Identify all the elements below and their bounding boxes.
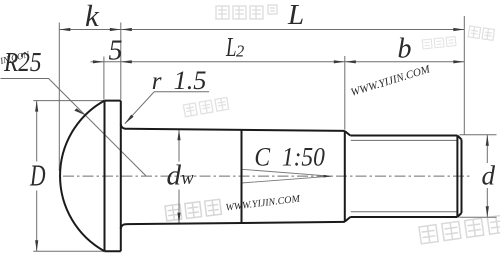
- dimension d arrows: [486, 135, 489, 146]
- dimension L line: [121, 29, 465, 31]
- dimension k arrows: [59, 28, 70, 31]
- dimension L2 extension (mid): [344, 56, 346, 130]
- dimension L2 line: [121, 61, 345, 63]
- dimension b arrows: [345, 60, 356, 63]
- thread root bottom (thin): [351, 211, 458, 213]
- leader R25 arrowhead: [74, 108, 85, 115]
- thread root top (thin): [351, 139, 458, 141]
- svg-text:1.5: 1.5: [174, 66, 207, 95]
- thread start chamfer bottom: [345, 217, 351, 222]
- taper arrowhead: [324, 175, 333, 178]
- thread crest bottom: [350, 216, 457, 218]
- dimension 5 extension: [103, 57, 105, 100]
- head dome arc: [60, 101, 104, 252]
- svg-text:R25: R25: [3, 47, 41, 77]
- dimension dw arrows: [177, 129, 180, 140]
- taper wedge lines: [242, 169, 332, 183]
- watermark shank diagonal: [165, 190, 301, 221]
- watermark top-center: [216, 5, 277, 19]
- svg-text:C 1:50: C 1:50: [254, 142, 325, 171]
- head bearing face: [120, 101, 122, 252]
- leader R25: [1, 79, 147, 176]
- centerline: [63, 175, 471, 177]
- svg-text:5: 5: [109, 35, 123, 66]
- dimension D arrows: [35, 101, 38, 112]
- dimension 5 line: [104, 61, 121, 63]
- watermark under r1.5: [183, 97, 228, 116]
- leader r1.5 arrowhead: [125, 115, 134, 124]
- dimension L right extension: [463, 16, 465, 135]
- thread end chamfer edge: [456, 136, 458, 218]
- fillet top r1.5: [121, 124, 126, 129]
- thread shoulder vertical: [344, 131, 346, 222]
- watermark bottom-right: [419, 215, 500, 244]
- dimension D top extension: [33, 100, 104, 102]
- dimension k extension right (above head): [120, 23, 122, 100]
- fillet bottom r1.5: [121, 224, 126, 229]
- dimension L2 arrows: [121, 60, 132, 63]
- dimension d line: [486, 135, 488, 218]
- thread end chamfer top: [457, 136, 461, 140]
- thread start chamfer top: [345, 131, 351, 135]
- head tangency line: [104, 101, 106, 252]
- dimension k extension left: [58, 23, 60, 172]
- dimension d top extension: [460, 134, 497, 136]
- shank bottom line (tapered): [126, 222, 345, 224]
- dimension D line: [36, 101, 38, 252]
- svg-text:b: b: [398, 33, 412, 64]
- dimension L arrows: [121, 28, 132, 31]
- svg-text:k: k: [85, 0, 100, 33]
- svg-text:w: w: [181, 169, 194, 189]
- dimension D bottom extension: [33, 250, 103, 252]
- svg-text:2: 2: [236, 42, 244, 61]
- thread end chamfer bottom: [457, 213, 461, 217]
- head bottom flat: [105, 250, 121, 252]
- watermark top-right: [468, 26, 494, 40]
- dimension k line: [59, 29, 121, 31]
- dimension b line: [345, 61, 465, 63]
- dimension dw line: [178, 129, 180, 223]
- svg-text:D: D: [29, 158, 45, 193]
- shank mid vertical: [241, 130, 243, 223]
- svg-text:d: d: [167, 159, 182, 191]
- thread crest top: [350, 135, 457, 137]
- svg-text:L: L: [287, 0, 304, 31]
- thread end face: [461, 140, 463, 214]
- dimension 5 outside arrow with tail: [91, 61, 104, 63]
- shank top line (tapered): [126, 129, 345, 131]
- svg-text:d: d: [482, 161, 496, 191]
- dimension d bottom extension: [460, 216, 497, 218]
- svg-text:r: r: [152, 68, 162, 95]
- svg-text:L: L: [225, 32, 236, 62]
- leader r1.5: [125, 92, 209, 124]
- head top flat: [105, 100, 121, 102]
